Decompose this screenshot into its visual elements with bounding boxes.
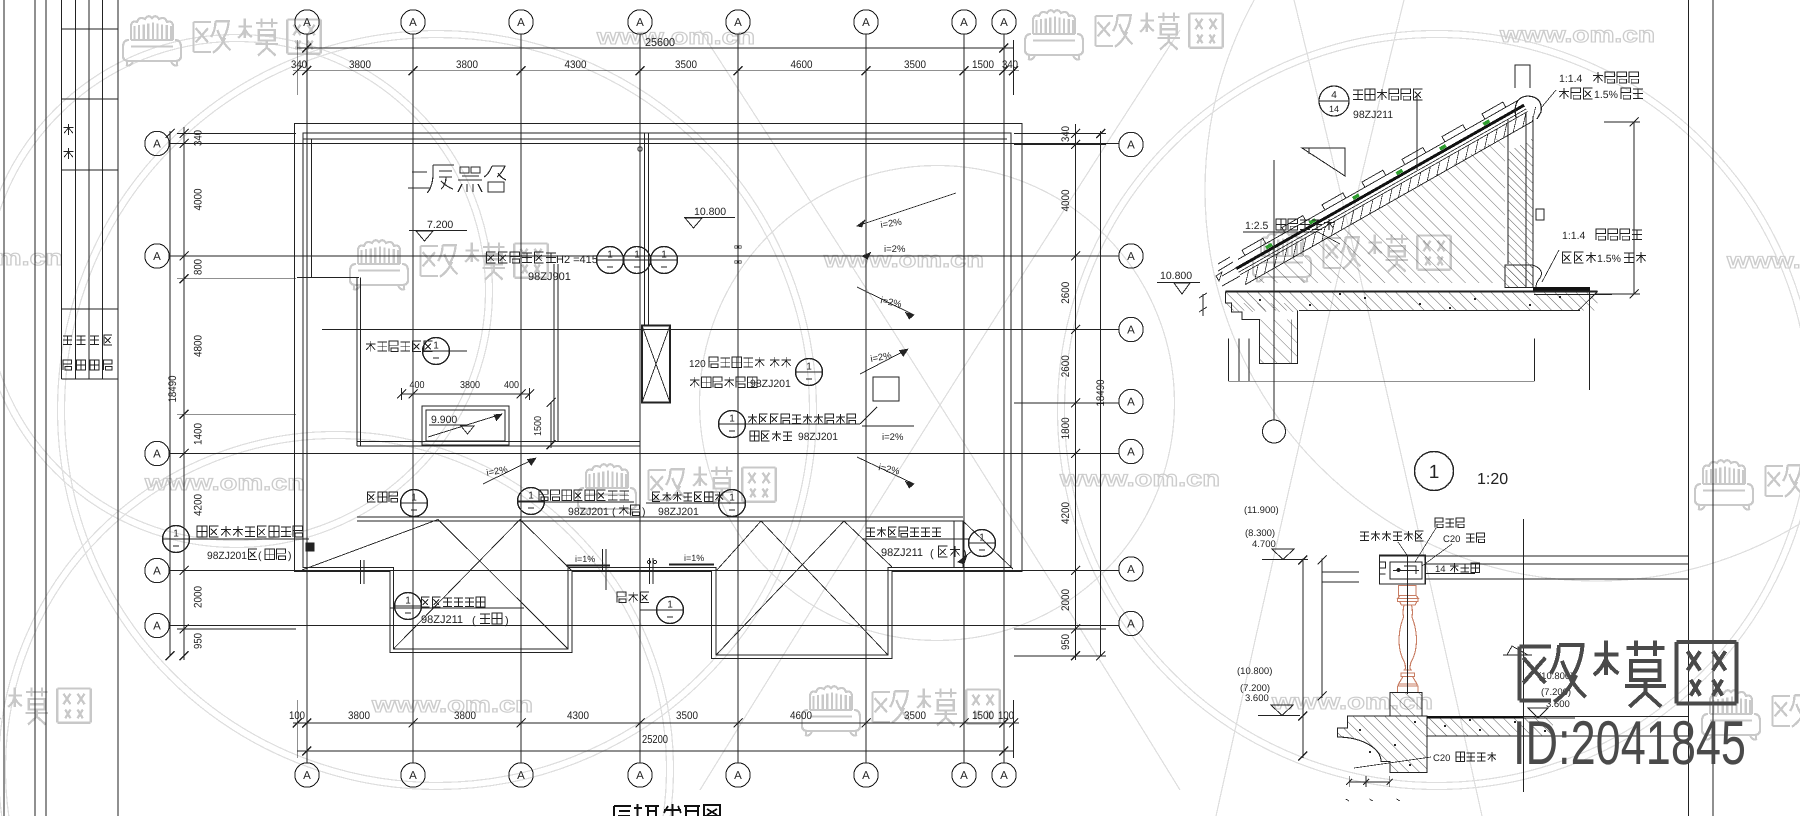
svg-text:www.om.cn: www.om.cn [371, 692, 533, 717]
eave detail title circle [1415, 452, 1454, 491]
svg-text:A: A [960, 770, 968, 782]
handrail top lines [1380, 555, 1689, 557]
svg-text:1:2.5: 1:2.5 [1245, 220, 1269, 232]
svg-text:3800: 3800 [348, 710, 370, 722]
svg-text:A: A [734, 770, 742, 782]
callout bubble wuji [395, 593, 422, 620]
svg-text:1: 1 [433, 341, 439, 352]
parapet wall lines [1507, 120, 1509, 264]
top dim extension lines [296, 40, 298, 95]
svg-text:25200: 25200 [642, 734, 668, 746]
slope arrow i2 bottom [857, 457, 914, 484]
wuji zuofa note line1 [422, 597, 486, 607]
wing2 hip X [761, 521, 888, 655]
watermark sofa+logo r3c2 [578, 464, 636, 513]
svg-text:A: A [409, 770, 417, 782]
axis horizontal line F [170, 570, 1119, 572]
svg-text:(: ( [258, 550, 262, 562]
watermark arc ring middle [700, 166, 1175, 641]
vent pipe note line1 [197, 526, 302, 537]
eave slab bottom line [1299, 310, 1580, 312]
axis circles top row [295, 10, 319, 34]
roof eave outline outer [295, 124, 1023, 659]
axis horizontal line E [170, 453, 1119, 455]
eave slab end taper [1578, 292, 1598, 311]
svg-text:4200: 4200 [1060, 502, 1072, 524]
watermark arc ring left [65, 38, 810, 783]
roof green fastener marks [1265, 243, 1273, 250]
svg-text:A: A [1127, 325, 1135, 337]
terrace east wall double [644, 133, 646, 326]
slab break marks [1199, 293, 1207, 316]
interior room lines below [1228, 339, 1230, 382]
vent pipe square [306, 543, 314, 551]
eave axis circle [1263, 420, 1286, 443]
svg-text:98ZJ201: 98ZJ201 [798, 431, 838, 443]
terrace inner west line [311, 139, 313, 278]
svg-text:A: A [517, 770, 525, 782]
svg-text:1: 1 [634, 250, 640, 261]
waterproof strip black [1533, 287, 1590, 290]
svg-text:A: A [153, 566, 161, 578]
eave right dim line [1633, 122, 1635, 294]
svg-text:3800: 3800 [460, 380, 480, 391]
terrace label [408, 165, 506, 193]
baluster centerline [1407, 556, 1409, 694]
shaft with X [642, 326, 670, 403]
svg-text:4800: 4800 [193, 335, 205, 357]
svg-text:2600: 2600 [1060, 282, 1072, 304]
svg-text:www.om.cn: www.om.cn [596, 24, 755, 49]
svg-text:A: A [734, 17, 742, 29]
balustrade wall cut line [1522, 519, 1524, 792]
svg-text:A: A [636, 17, 644, 29]
wall below right [1589, 291, 1591, 390]
big logo text [1519, 640, 1736, 706]
right dim extension stubs [1014, 133, 1106, 135]
axis horizontal line C [322, 329, 1119, 331]
svg-text:i=2%: i=2% [882, 432, 904, 443]
bottom total dim line 25200 [297, 750, 1014, 752]
molding tiny labels [1346, 799, 1349, 801]
slope arrow i2 top [857, 193, 956, 226]
molding small dim [1349, 781, 1390, 783]
svg-text:100: 100 [998, 710, 1014, 722]
9.900 box inner [426, 410, 505, 441]
svg-text:3.600: 3.600 [1245, 693, 1269, 704]
cornice inner line [1291, 319, 1293, 363]
tile note leader [1416, 95, 1418, 170]
svg-text:3500: 3500 [904, 710, 926, 722]
callout bubble xiaocanlou [657, 597, 684, 624]
small vent circle on terrace wall [638, 147, 642, 151]
callout bubble brick wall [796, 359, 823, 386]
axis horizontal line D stub [1014, 402, 1119, 404]
eave slab concrete dots [1259, 299, 1261, 301]
balustrade left rail cont lines [1322, 571, 1359, 573]
eave slab top line [1226, 291, 1598, 293]
roof hole note line2 [750, 431, 792, 441]
parapet wall hatch [1508, 138, 1533, 288]
svg-text:1.5%: 1.5% [1594, 89, 1618, 101]
right segment dim line [1075, 124, 1077, 660]
svg-text:340: 340 [1060, 126, 1072, 142]
left dim extension stubs [177, 133, 296, 135]
bottom segment dim line [293, 722, 1019, 724]
SW hip diagonal [302, 520, 438, 571]
svg-text:1: 1 [661, 250, 667, 261]
svg-text:4300: 4300 [567, 710, 589, 722]
tile color note [1353, 89, 1422, 100]
svg-text:4300: 4300 [565, 59, 587, 71]
svg-text:1: 1 [173, 529, 179, 540]
svg-text:98ZJ901: 98ZJ901 [528, 271, 571, 283]
svg-text:7.200: 7.200 [427, 219, 453, 231]
svg-text:3500: 3500 [676, 710, 698, 722]
svg-text:120: 120 [689, 359, 706, 370]
watermark sofa+logo r1c1 [123, 16, 181, 65]
svg-text:(10.800): (10.800) [1237, 666, 1272, 677]
balustrade slab bottom line [1427, 735, 1689, 737]
axis circles right column [1119, 132, 1143, 156]
svg-text:(: ( [472, 615, 476, 627]
svg-text:3500: 3500 [675, 59, 697, 71]
svg-text:A: A [517, 17, 525, 29]
svg-text:400: 400 [410, 380, 425, 391]
plan title [614, 804, 720, 816]
handrail section [1380, 555, 1426, 584]
svg-text:A: A [153, 449, 161, 461]
svg-text:(: ( [612, 506, 616, 518]
svg-text:98ZJ201: 98ZJ201 [750, 378, 791, 390]
svg-text:i=1%: i=1% [575, 554, 595, 564]
terrace bottom wall double [357, 440, 640, 442]
callout bubble putong [518, 488, 545, 515]
svg-text:A: A [303, 17, 311, 29]
svg-text:A: A [1127, 564, 1135, 576]
note zuofa canjian jianshi [366, 341, 432, 352]
svg-text:4200: 4200 [193, 494, 205, 516]
svg-text:1500: 1500 [972, 59, 994, 71]
svg-text:4.700: 4.700 [1252, 539, 1276, 550]
bottom dim ticks [293, 719, 302, 728]
callout bubbles trio [597, 247, 624, 274]
svg-text:1: 1 [1429, 462, 1440, 483]
wing1 hip X [438, 520, 568, 649]
svg-text:800: 800 [193, 259, 205, 275]
brick wall note line2 [690, 377, 757, 388]
svg-text:98ZJ211: 98ZJ211 [881, 547, 923, 559]
callout bubble vent [163, 526, 190, 553]
main block bottom wall double line [357, 516, 963, 518]
svg-text:98ZJ201: 98ZJ201 [207, 550, 247, 562]
putong chuwumian note line1 [539, 490, 629, 501]
callout bubble neipaishui [719, 490, 746, 517]
page border line far left [3, 0, 5, 816]
watermark sofa+logo r4c2 [802, 686, 860, 735]
callout bubble roof hole [719, 411, 746, 438]
slope arrow i2 wing1 [483, 458, 536, 484]
leader to small square [860, 407, 877, 424]
axis horizontal line A [170, 143, 1119, 145]
svg-text:www.om.cn: www.om.cn [0, 245, 63, 270]
lime note top line2 [1559, 88, 1592, 99]
cornice leg hatch [1259, 319, 1297, 363]
central interior wall double [553, 264, 555, 441]
svg-text:i=2%: i=2% [884, 244, 906, 255]
svg-text:1500: 1500 [533, 416, 544, 436]
svg-text:1:1.4: 1:1.4 [1559, 73, 1583, 85]
watermark arc right detail [1205, 0, 1800, 581]
small slope flag right [1507, 646, 1528, 655]
roof top third line [303, 138, 1007, 140]
watermark sofa+logo r1c3 [1025, 10, 1083, 59]
svg-text:950: 950 [1060, 634, 1072, 650]
svg-text:A: A [1127, 619, 1135, 631]
joint mark left wing [360, 560, 362, 584]
svg-text:3500: 3500 [904, 59, 926, 71]
left segment dim line [183, 127, 185, 660]
svg-text:25600: 25600 [645, 37, 675, 49]
page border line left 2 [34, 0, 36, 816]
axis horizontal line G [170, 625, 1119, 627]
dim 400 3800 400 [402, 393, 530, 395]
svg-text:A: A [1000, 770, 1008, 782]
dim 1500 vertical [550, 403, 552, 449]
svg-text:3800: 3800 [454, 710, 476, 722]
svg-text:www.om.cn: www.om.cn [144, 470, 305, 495]
right dim ticks [1071, 129, 1080, 138]
watermark arc bottom-left [6, 439, 667, 816]
eave tip tiles [1216, 257, 1240, 286]
svg-text:18490: 18490 [167, 376, 179, 403]
balustrade slab hatch [1427, 717, 1553, 737]
svg-text:4: 4 [1331, 90, 1337, 101]
svg-text:4600: 4600 [790, 710, 812, 722]
svg-text:A: A [153, 139, 161, 151]
svg-text:A: A [1127, 251, 1135, 263]
svg-text:): ) [288, 550, 292, 562]
title strip discipline labels row1 [63, 336, 72, 345]
svg-text:): ) [505, 615, 509, 627]
svg-text:1: 1 [667, 600, 673, 611]
svg-text:2000: 2000 [1060, 589, 1072, 611]
svg-text:A: A [862, 17, 870, 29]
svg-text:A: A [1000, 17, 1008, 29]
svg-text:18490: 18490 [1095, 380, 1107, 407]
xiangjianshi note [368, 492, 398, 502]
left total dim line 18490 [169, 131, 171, 656]
svg-text:1: 1 [806, 362, 812, 373]
roof tile battens [1242, 238, 1266, 255]
svg-text:1800: 1800 [1060, 417, 1072, 439]
svg-text:A: A [1127, 140, 1135, 152]
svg-text:1.5%: 1.5% [1597, 253, 1621, 265]
svg-text:98ZJ211: 98ZJ211 [1353, 109, 1393, 121]
line under strip [1534, 294, 1612, 296]
svg-text:9.900: 9.900 [431, 414, 457, 426]
svg-text:A: A [153, 251, 161, 263]
slope triangle symbol [1302, 148, 1345, 176]
bottom dim extension lines [296, 700, 298, 758]
callout bubble jianshi [423, 338, 450, 365]
baluster base block [1390, 693, 1422, 717]
watermark sofa+logo r2c3 [1253, 232, 1311, 281]
terrace west wall [356, 278, 358, 446]
axis circles left column [145, 131, 169, 155]
svg-text:2000: 2000 [193, 586, 205, 608]
title strip right line [117, 0, 119, 816]
balustrade left dim line1 [1302, 559, 1304, 758]
drain dots axis5 [735, 246, 738, 249]
right total dim line 18490 [1100, 131, 1102, 656]
top total dim line 25600 [297, 47, 1014, 49]
svg-text:1: 1 [729, 493, 735, 504]
small roof opening square [873, 377, 899, 401]
9.900 box outer [422, 406, 509, 445]
watermark arc ring right [1065, 38, 1800, 783]
svg-text:www.om.cn: www.om.cn [1726, 248, 1800, 273]
heshui gou note line1 [866, 527, 941, 537]
top dim ticks [293, 66, 302, 75]
balustrade left dim line2 [1321, 559, 1323, 698]
wing1 valley to recess [520, 520, 572, 572]
lime note bottom leader [1542, 250, 1559, 282]
SE hip diagonal [963, 521, 1013, 569]
svg-text:1: 1 [729, 414, 735, 425]
ridge small box [1515, 65, 1530, 88]
svg-text:1: 1 [528, 491, 534, 502]
page border line right outer [1712, 0, 1714, 816]
svg-text:1500: 1500 [972, 710, 994, 722]
watermark sofa+logo r3c4 [1695, 460, 1753, 509]
svg-text:www.om.cn: www.om.cn [1499, 22, 1655, 47]
svg-text:14: 14 [1329, 104, 1339, 114]
gable wedge hatch [1250, 134, 1505, 283]
svg-text:C20: C20 [1433, 753, 1450, 764]
svg-text:i=1%: i=1% [684, 553, 704, 563]
neipaishui note line1 [653, 492, 724, 502]
svg-text:1: 1 [979, 533, 985, 544]
svg-text:A: A [153, 621, 161, 633]
parapet bracket [1536, 209, 1544, 220]
roof slope assembly [1230, 89, 1541, 284]
wing2 valleys [716, 521, 761, 571]
watermark arc top-left [0, 42, 486, 541]
joint mark right [649, 558, 651, 584]
small dots near gutter [648, 561, 651, 564]
svg-text:340: 340 [193, 130, 205, 146]
title strip discipline labels row2 [63, 360, 72, 370]
svg-text:3800: 3800 [456, 59, 478, 71]
callout bubble xiangjianshi [401, 490, 428, 517]
terrace north step line [297, 277, 359, 279]
svg-text:(: ( [930, 548, 934, 560]
parapet base block [1505, 265, 1533, 288]
xiaocanlou note [617, 592, 649, 603]
svg-text:(11.900): (11.900) [1244, 505, 1279, 516]
svg-text:): ) [642, 506, 646, 518]
svg-text:2600: 2600 [1060, 355, 1072, 377]
svg-text:4000: 4000 [193, 189, 205, 211]
svg-text:98ZJ201: 98ZJ201 [658, 506, 699, 518]
page border line left 3 [45, 0, 47, 816]
svg-text:1:20: 1:20 [1477, 471, 1508, 488]
eave axis line [1273, 160, 1275, 420]
title strip column lines [61, 0, 63, 379]
rail note phi6 [1435, 518, 1464, 528]
svg-text:10.800: 10.800 [694, 206, 726, 218]
cornice steps left [1226, 292, 1298, 364]
left dim ticks [180, 129, 189, 138]
slope arrow i2 low [860, 349, 908, 374]
axis vertical stems [306, 35, 308, 763]
watermark flat cross arcs center [700, 30, 1180, 790]
svg-text:ID:2041845: ID:2041845 [1513, 709, 1746, 778]
axis circles bottom row [295, 763, 319, 787]
ridge curl [1515, 96, 1541, 119]
svg-text:340: 340 [291, 59, 307, 71]
svg-text:1: 1 [405, 596, 411, 607]
svg-text:3800: 3800 [349, 59, 371, 71]
axis horizontal line B [170, 255, 1119, 257]
joint mark mid [602, 549, 604, 572]
svg-text:100: 100 [289, 710, 305, 722]
balustrade slab dots [1444, 725, 1446, 727]
roof wall outline inner [303, 133, 1011, 655]
svg-text:98ZJ211: 98ZJ211 [421, 614, 463, 626]
9.900 diagonal arrow [428, 414, 502, 437]
svg-text:950: 950 [193, 633, 205, 649]
svg-text:A: A [1127, 397, 1135, 409]
svg-text:H2 =415: H2 =415 [556, 254, 598, 266]
page border line right inner [1688, 0, 1690, 816]
svg-text:A: A [1127, 447, 1135, 459]
molding dots [1359, 729, 1361, 731]
svg-text:www.om.cn: www.om.cn [1059, 466, 1220, 491]
roof hole note line1 [748, 414, 856, 424]
lime note top leader [1541, 90, 1556, 108]
balustrade slab top line [1427, 716, 1689, 718]
parapet drip curl [1533, 265, 1541, 288]
top segment dim line [293, 70, 1019, 72]
svg-text:A: A [303, 770, 311, 782]
svg-text:10.800: 10.800 [1160, 270, 1192, 282]
svg-text:(8.300): (8.300) [1245, 528, 1275, 539]
canopy note line1 [487, 252, 556, 263]
svg-text:A: A [409, 17, 417, 29]
svg-text:C20: C20 [1443, 534, 1460, 545]
svg-text:4000: 4000 [1060, 190, 1072, 212]
callout bubble heshuigou [969, 530, 996, 557]
svg-text:340: 340 [1002, 59, 1018, 71]
rail note gangjin hunningtu [1360, 531, 1424, 541]
svg-text:4600: 4600 [791, 59, 813, 71]
molding cornice [1337, 716, 1427, 773]
svg-text:1: 1 [411, 493, 417, 504]
svg-text:A: A [636, 770, 644, 782]
svg-text:400: 400 [504, 380, 519, 391]
tile callout circle 4-14 [1319, 86, 1349, 116]
svg-text:1400: 1400 [193, 423, 205, 445]
svg-text:1:1.4: 1:1.4 [1562, 230, 1586, 242]
svg-text:A: A [862, 770, 870, 782]
watermark sofa+logo r4c4 [1702, 690, 1760, 739]
bottom step verticals right [953, 521, 955, 568]
watermark flat cross arcs right [1216, 0, 1404, 816]
lime note bottom line2 [1563, 252, 1596, 263]
watermark sofa+logo r2c1 [350, 240, 408, 289]
